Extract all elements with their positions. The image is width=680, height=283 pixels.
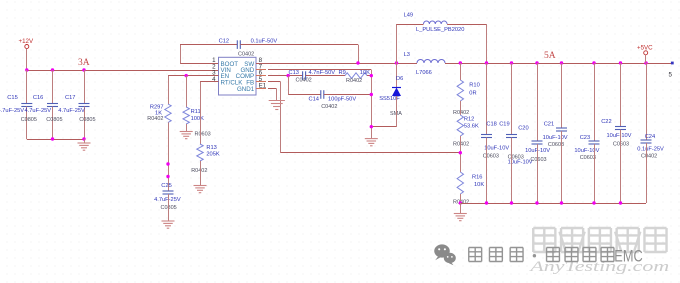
svg-text:5A: 5A (544, 51, 556, 61)
junction 5A/R10 (459, 61, 462, 64)
junction bank C17 (82, 137, 85, 140)
svg-text:C24: C24 (645, 134, 655, 140)
wire C20 column bottom (537, 144, 539, 203)
capacitor C25 (163, 191, 174, 194)
wire C25 to ground (168, 194, 170, 221)
wire L49 right leg (486, 24, 488, 63)
svg-text:0R: 0R (469, 91, 476, 97)
svg-text:C16: C16 (33, 95, 43, 101)
wire C16 column bottom (52, 107, 54, 140)
wire C22 column bottom (620, 130, 622, 204)
wire R13 to ground (200, 161, 202, 186)
svg-text:L3: L3 (404, 52, 410, 58)
junction FB tap (459, 151, 462, 154)
power +12V symbol (19, 38, 34, 49)
wire SW net (256, 63, 417, 65)
junction bottom bus/C22 (619, 201, 622, 204)
ground under R11 (180, 132, 193, 139)
junction bottom bus/C19 (510, 201, 513, 204)
svg-text:205K: 205K (206, 152, 219, 158)
junction R9/gnd column (370, 74, 373, 77)
svg-text:C0402: C0402 (641, 154, 657, 160)
ground under cap bank (78, 143, 91, 150)
svg-text:D6: D6 (396, 76, 403, 82)
wire U1 right stub (256, 69, 266, 71)
wire RT/CLK net (200, 81, 219, 83)
svg-text:C18: C18 (486, 122, 496, 128)
junction 5A/C24 (644, 61, 647, 64)
svg-text:53.6K: 53.6K (464, 124, 479, 130)
wire R12 to R16 (460, 136, 462, 172)
capacitor C20 (532, 141, 543, 144)
ground under R13 (194, 186, 207, 193)
svg-text:C0805: C0805 (46, 117, 62, 123)
capacitor C13 (303, 71, 306, 80)
wire 3A bus (VIN net) (27, 70, 219, 72)
wire R16 to bottom bus (460, 194, 462, 203)
svg-text:R13: R13 (206, 145, 216, 151)
svg-text:4.7uF-25V: 4.7uF-25V (154, 197, 181, 203)
svg-text:R16: R16 (472, 174, 482, 180)
svg-text:R9: R9 (339, 70, 346, 76)
wire C23 column bottom (594, 144, 596, 203)
inductor L49 (424, 21, 448, 24)
junction bottom bus/C20 (535, 201, 538, 204)
resistor R12 (457, 115, 463, 136)
wire C24 column bottom (646, 143, 648, 203)
junction 5A/C22 (619, 61, 622, 64)
wire R10 to R12 (460, 101, 462, 115)
wire C23 column top (594, 63, 596, 141)
svg-text:C14: C14 (309, 97, 319, 103)
junction SW/C12 leg (356, 61, 359, 64)
wire C15 column bottom (26, 107, 28, 140)
wire C21 column top (561, 63, 563, 128)
offpage connector 5A end (671, 62, 674, 65)
wire E1 down (276, 88, 278, 100)
svg-text:5: 5 (669, 72, 673, 79)
junction C14/gnd column (370, 93, 373, 96)
svg-text:4.7uF-25V: 4.7uF-25V (58, 108, 85, 114)
capacitor C14 (321, 90, 324, 99)
wire U1 right stub (256, 81, 266, 83)
wire bank ground stub (84, 139, 86, 143)
wire C15 column top (26, 70, 28, 104)
svg-text:R0402: R0402 (453, 142, 469, 148)
wire C18 column top (486, 63, 488, 135)
svg-text:C0402: C0402 (321, 104, 337, 110)
wire FB pin5 horiz (268, 81, 281, 83)
wire bottom bus (460, 203, 646, 205)
wire C14 branch down (288, 76, 290, 95)
wire GND pin7 net (268, 69, 371, 71)
svg-text:0.1uF-25V: 0.1uF-25V (637, 147, 664, 153)
junction 5A/C19 (510, 61, 513, 64)
wire +12V to 3A bus (26, 49, 28, 71)
junction C25 wire a (166, 162, 169, 165)
wire U1 right stub (256, 75, 266, 77)
svg-text:C21: C21 (544, 122, 554, 128)
wire FB vertical (280, 82, 282, 153)
junction bank C16 (51, 137, 54, 140)
junction bottom bus/R16 (459, 201, 462, 204)
svg-text:R0402: R0402 (346, 78, 362, 84)
caption gongzhonghao taolue-keji (469, 248, 614, 262)
icon wechat (434, 244, 456, 265)
resistor R9 (345, 73, 367, 79)
junction C25 wire b (166, 175, 169, 178)
svg-text:10uF-10V: 10uF-10V (543, 135, 568, 141)
svg-text:C22: C22 (601, 119, 611, 125)
ground comp network (365, 139, 378, 146)
wire C16 column top (52, 70, 54, 104)
wire C19 column top (511, 63, 513, 135)
junction COMP/C14 branch (287, 74, 290, 77)
junction bottom bus/C21 (560, 201, 563, 204)
svg-text:C0402: C0402 (296, 77, 312, 83)
svg-text:C0603: C0603 (483, 154, 499, 160)
svg-text:C19: C19 (499, 122, 509, 128)
wire BOOT loop left leg (180, 45, 182, 64)
wire EN net (168, 75, 219, 77)
junction bottom bus/C18 (485, 201, 488, 204)
svg-text:C0805: C0805 (21, 117, 37, 123)
wire L49 top left (397, 24, 424, 26)
wire L49 left leg (396, 24, 398, 63)
capacitor C24 (641, 140, 652, 143)
junction 3A/C16 (51, 68, 54, 71)
wire C17 column bottom (84, 107, 86, 140)
svg-text:GND1: GND1 (237, 86, 255, 93)
junction SW/D6/L49 (395, 61, 398, 64)
wire C14 to gnd column (324, 94, 372, 96)
capacitor C16 (47, 104, 58, 107)
svg-text:C0603: C0603 (580, 155, 596, 161)
junction 5A/C23 (592, 61, 595, 64)
wire C19 column bottom (511, 138, 513, 204)
svg-text:C23: C23 (580, 135, 590, 141)
wire R9 to gnd column (367, 75, 371, 77)
svg-text:R0402: R0402 (147, 116, 163, 122)
junction 5A/C18/L49 (485, 61, 488, 64)
junction 3A/C17 (82, 68, 85, 71)
wire BOOT pin1 horiz (180, 63, 219, 65)
svg-text:L7066: L7066 (416, 70, 432, 76)
watermark text jiayu-jianceweng (533, 228, 666, 252)
svg-text:SS510F: SS510F (379, 96, 400, 102)
capacitor C22 (615, 127, 626, 130)
wire EN down to R297 (168, 76, 170, 104)
ground under C25 (162, 221, 175, 228)
resistor R10 (457, 80, 463, 101)
svg-text:C0603: C0603 (508, 154, 524, 160)
capacitor C12 (237, 40, 240, 49)
svg-text:EMC: EMC (614, 248, 642, 266)
wire C24 column top (646, 63, 648, 140)
svg-text:100pF-50V: 100pF-50V (328, 97, 356, 103)
diode D6 (392, 88, 401, 97)
wire D6 anode down (396, 96, 398, 127)
svg-text:10K: 10K (474, 182, 484, 188)
svg-text:3A: 3A (78, 58, 90, 68)
ground under E1 (269, 101, 285, 110)
svg-text:R12: R12 (464, 116, 474, 122)
wire BOOT loop top right (240, 44, 358, 46)
wire L3 to 5A bus (445, 63, 672, 65)
wire FB horizontal to divider (281, 152, 461, 154)
capacitor C18 (481, 135, 492, 138)
svg-text:R0402: R0402 (191, 168, 207, 174)
svg-text:10uF-10V: 10uF-10V (484, 146, 509, 152)
resistor R297 (165, 104, 171, 123)
svg-text:0.1uF-50V: 0.1uF-50V (251, 38, 278, 44)
op-amp U1 regulator box (219, 57, 257, 95)
wire R297 to C25 (168, 123, 170, 192)
svg-text:C0603: C0603 (530, 157, 546, 163)
capacitor C17 (79, 104, 90, 107)
svg-text:C15: C15 (7, 95, 17, 101)
resistor R13 (197, 144, 203, 161)
wire D6 cathode from SW (396, 63, 398, 88)
resistor R11 (183, 107, 189, 124)
svg-text:L_PULSE_PB2020: L_PULSE_PB2020 (416, 27, 464, 33)
junction 5A/C20 (535, 61, 538, 64)
wire R11 to ground (186, 124, 188, 132)
svg-text:C0603: C0603 (613, 142, 629, 148)
svg-text:L49: L49 (404, 13, 414, 19)
svg-text:C25: C25 (161, 183, 171, 189)
wire C13 to R9 (306, 75, 345, 77)
resistor R16 (457, 172, 463, 194)
wire C21 column bottom (561, 131, 563, 203)
junction 5A/C21 (560, 61, 563, 64)
capacitor C19 (506, 135, 517, 138)
capacitor C23 (589, 141, 600, 144)
wire C18 column bottom (486, 138, 488, 204)
wire U1 right stub (256, 88, 266, 90)
svg-text:4.7uF-25V: 4.7uF-25V (0, 108, 24, 114)
wire cap bank bottom bus (27, 139, 84, 141)
ground output bank (454, 214, 467, 221)
wire RT/CLK down to R13 (200, 82, 202, 144)
junction D6/gnd column (370, 125, 373, 128)
svg-text:+5VC: +5VC (637, 44, 653, 51)
svg-text:10uF-10V: 10uF-10V (607, 133, 632, 139)
wire bottom bus ground stub (460, 203, 462, 214)
svg-text:C0402: C0402 (238, 52, 254, 58)
wire BOOT loop top left (180, 44, 237, 46)
svg-text:C20: C20 (518, 126, 528, 132)
wire COMP net to C13 (268, 75, 303, 77)
svg-text:R11: R11 (191, 109, 201, 115)
wire C14 branch horiz (288, 94, 321, 96)
wire 5A to R10 (460, 63, 462, 80)
svg-text:100K: 100K (191, 116, 204, 122)
wire +5VC stub (645, 55, 647, 63)
wire R11 drop (186, 76, 188, 107)
svg-text:R10: R10 (469, 83, 479, 89)
power +5VC symbol (637, 44, 653, 55)
junction bottom bus/C23 (592, 201, 595, 204)
wire C22 column top (620, 63, 622, 127)
wire D6 anode to gnd column (371, 126, 396, 128)
junction 3A/+12V (25, 68, 28, 71)
wire L49 top right (447, 24, 486, 26)
svg-text:C17: C17 (65, 95, 75, 101)
wire BOOT loop right leg (358, 45, 360, 63)
capacitor C15 (21, 104, 32, 107)
capacitor C21 (556, 128, 567, 131)
svg-text:C12: C12 (219, 38, 229, 44)
wire C20 column top (537, 63, 539, 141)
svg-text:C13: C13 (289, 70, 299, 76)
inductor L3 (417, 60, 445, 64)
svg-text:R0603: R0603 (195, 132, 211, 138)
svg-text:4.7uF-25V: 4.7uF-25V (25, 108, 52, 114)
svg-text:C0805: C0805 (79, 117, 95, 123)
wire C17 column top (84, 70, 86, 104)
wire U1 right stub (256, 63, 266, 65)
junction EN/R11 (185, 74, 188, 77)
wire E1 horiz (268, 88, 276, 90)
wire comp ground column (371, 70, 373, 139)
svg-text:+12V: +12V (19, 38, 34, 45)
svg-text:10uF-10V: 10uF-10V (574, 148, 599, 154)
